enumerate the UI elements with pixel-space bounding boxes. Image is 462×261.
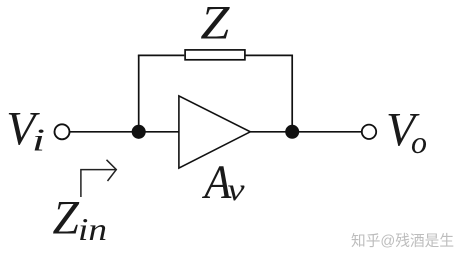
node input junction (filled dot) [132,125,146,139]
svg-text:知乎@残酒是生: 知乎@残酒是生 [351,233,454,250]
label Vo [386,105,427,161]
watermark [351,233,454,250]
label Zin (input impedance) [53,193,108,248]
impedance Z (feedback box) [185,50,245,60]
label Z (feedback impedance) [200,0,230,50]
terminal Vo (output open circle) [362,125,376,139]
wire feedback top-left: to Z box [138,54,184,56]
wire input: Vi circle to amplifier input [69,131,179,133]
svg-text:v: v [228,171,246,207]
label Vi [6,104,45,158]
wire feedback left vertical [138,55,140,131]
wire feedback right vertical [291,55,293,132]
Zin direction arrow [81,160,116,197]
op-amp A_v (amplifier triangle) [179,96,250,168]
terminal Vi (input open circle) [55,124,70,139]
label Av (amplifier gain) [202,157,246,209]
svg-text:Z: Z [200,0,230,50]
svg-text:in: in [78,211,107,247]
wire output: amplifier apex to Vo circle [250,131,361,133]
wire feedback top-right: Z box to right vertical [245,54,292,56]
svg-text:i: i [32,122,45,158]
svg-text:o: o [411,124,427,160]
node output junction (filled dot) [285,125,299,139]
svg-text:Z: Z [53,193,80,245]
